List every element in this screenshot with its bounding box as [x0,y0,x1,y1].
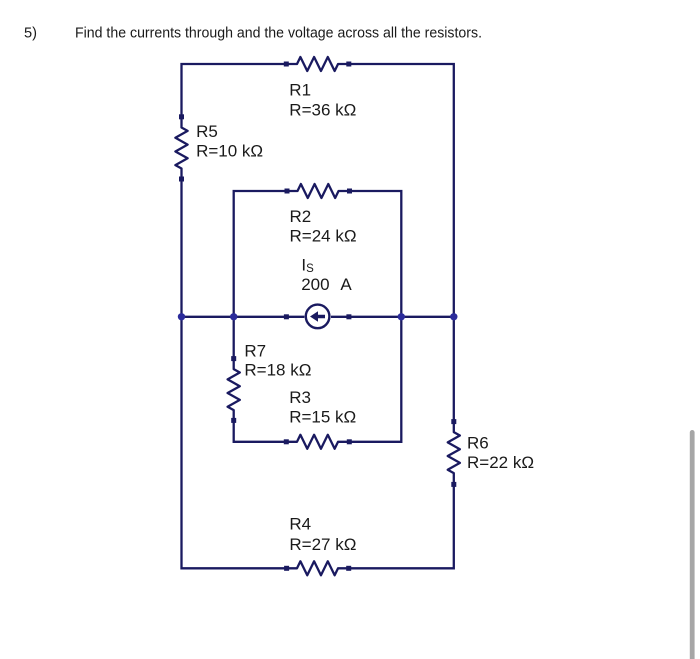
svg-text:R=27 kΩ: R=27 kΩ [289,535,356,554]
svg-text:R7: R7 [244,341,266,360]
svg-text:5): 5) [24,26,37,42]
svg-text:R2: R2 [290,207,312,226]
wire middle left [182,316,287,318]
svg-text:R=15 kΩ: R=15 kΩ [289,407,356,426]
svg-text:R=24 kΩ: R=24 kΩ [290,227,357,246]
wire left lower + bottom left [182,179,287,568]
resistor R7 [228,356,240,423]
resistor R4 [284,561,351,575]
svg-text:200 A: 200 A [301,275,352,294]
svg-text:IS: IS [301,256,314,275]
wire R7 to inner bottom [234,420,287,441]
scrollbar thumb [690,430,695,659]
svg-text:R1: R1 [289,80,311,99]
wire inner box top-left [234,191,287,317]
wire middle right [349,316,454,318]
junction node C (inner right) [398,313,405,320]
wire inner box top-right [350,191,402,317]
wire right upper + top right [349,64,454,422]
svg-text:R3: R3 [289,388,311,407]
wire top-left + left upper [182,64,287,117]
junction node D (right) [450,313,457,320]
junction node A (left) [178,313,185,320]
svg-text:R6: R6 [467,434,489,453]
svg-text:Find the currents through and: Find the currents through and the voltag… [75,26,482,42]
junction node B (inner left) [230,313,237,320]
resistor R6 [448,419,460,487]
svg-text:R=10 kΩ: R=10 kΩ [196,142,263,161]
svg-text:R=22 kΩ: R=22 kΩ [467,453,534,472]
svg-text:R4: R4 [289,515,311,534]
resistor R1 [284,57,352,71]
wire inner bottom-right [349,317,401,442]
wire bottom right + right lower [349,484,454,568]
resistor R5 [175,114,187,181]
svg-text:R=18 kΩ: R=18 kΩ [244,361,311,380]
resistor R3 [284,435,352,449]
wire inner left to R7 [233,317,235,359]
svg-text:R5: R5 [196,122,218,141]
resistor R2 [285,184,353,198]
svg-text:R=36 kΩ: R=36 kΩ [289,101,356,120]
current source Is [284,305,352,329]
